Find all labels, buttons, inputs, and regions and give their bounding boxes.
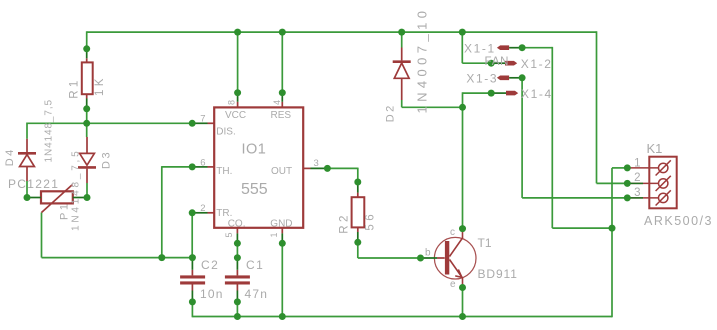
connector K1 terminal 3 [659,193,668,202]
resistor R1 bottom pin [86,94,88,98]
junction dot TH pin [189,163,196,170]
junction dot emitter-ground rail [459,313,466,320]
piezo P1 wiper diagonal [42,185,73,213]
transistor T1 emitter arrow [455,270,462,278]
wire: DIS row horizontal (D4 top to IO1 pin 7) [27,122,192,124]
wire: C1 bottom to ground rail [236,302,238,317]
wire: rail down to IO1 VCC pin [237,32,239,93]
wire: corner down to R2 top [357,168,359,182]
junction dot DIS row / R1 / D3 [83,120,90,127]
connector K1 pin 2 lead [627,182,658,184]
IO1 pin 4 RES [281,102,283,108]
junction dot C1 top [234,254,241,261]
svg-text:D4: D4 [4,147,16,166]
junction dot C2 top [189,254,196,261]
wire: horizontal to T1 base [358,257,421,259]
junction dot X1-3 pin [519,74,526,81]
junction dot C2 bottom [189,298,196,305]
svg-text:TR.: TR. [216,208,232,219]
svg-text:c: c [450,227,455,238]
junction dot C1-ground rail [234,313,241,320]
junction dot piezo right [84,194,91,201]
transistor T1 base bar [445,241,449,275]
junction dot R1 top [83,45,90,52]
junction dot X1-4 pin [488,90,495,97]
wire: TH column down to C2 row [161,166,163,258]
wire: junction up to K1 pin 1 row [611,168,613,228]
svg-text:1N4007_10: 1N4007_10 [415,7,430,114]
svg-text:e: e [450,279,456,290]
junction dot T1 emitter [459,284,466,291]
svg-text:TH.: TH. [216,166,232,177]
wire: DIS row corner down to D4 top [26,123,28,139]
wire: ground bottom rail [192,316,612,318]
diode D3 cathode bar [78,166,96,169]
wire: rail corner down to R1 top [86,31,88,49]
wire: ground rail right corner up to junction [611,228,613,317]
svg-text:X1-2: X1-2 [521,57,553,71]
junction dot K1 pin 3 [624,194,631,201]
capacitor C2 bottom plate [180,281,205,284]
resistor R1 body [82,62,93,94]
junction dot rail-D2 [398,29,405,36]
svg-text:T1: T1 [478,236,492,250]
junction dot R2 top [354,179,361,186]
IO1 pin 3 OUT [303,167,310,169]
svg-text:IO1: IO1 [242,141,267,157]
wire: OUT pin to R2 corner [327,167,357,169]
connector K1 pin 3 lead [627,197,658,199]
diode D4 bottom pin [26,167,28,182]
wire: CO pin down to C1 top [236,243,238,257]
op-amp timer IC IO1 body [214,107,303,227]
junction dot GND pin [279,240,286,247]
junction dot D2 / X1-4 / collector node [459,104,466,111]
diode D2 triangle [394,63,409,78]
junction dot VCC pin [234,89,241,96]
wire: T1 emitter down to ground rail [462,288,464,317]
junction dot OUT pin [324,165,331,172]
diode D2 cathode bar [393,60,411,63]
wire: X1-3 row to K1 pin 3 [522,197,627,199]
piezo / trimmer P1 body [41,191,73,203]
svg-text:2: 2 [634,172,640,184]
diode D3 bottom pin [86,169,88,183]
junction dot K1 pin 2 [624,180,631,187]
junction dot T1 base [417,255,424,262]
svg-text:K1: K1 [647,141,663,156]
svg-text:C1: C1 [246,258,264,272]
IO1 pin 2 TR [208,212,215,214]
connector pin X1-2 [491,62,505,64]
svg-text:8: 8 [227,100,237,105]
wire: R1 bottom to DIS row junction [86,109,88,124]
svg-text:R1: R1 [69,77,81,99]
junction dot piezo left [24,194,31,201]
svg-text:10n: 10n [200,287,224,301]
svg-text:P1: P1 [58,202,70,220]
svg-text:1N4148_7,5: 1N4148_7,5 [44,99,55,163]
diode D4 top pin [26,139,28,152]
svg-text:OUT: OUT [271,166,292,177]
junction dot rail-X1 [459,29,466,36]
wire: rail right end down to K1 pin 2 row [596,31,598,183]
svg-text:FAN: FAN [485,56,510,68]
IO1 pin 7 DIS [208,122,215,124]
junction dot TR pin [189,209,196,216]
wire: junction down to T1 collector [462,107,464,228]
capacitor C2 top plate [180,275,205,278]
junction dot T1 collector [459,225,466,232]
junction dot CO pin [234,240,241,247]
transistor T1 circle [434,237,476,279]
svg-text:1: 1 [269,232,279,237]
connector K1 pin 1 lead [627,167,658,169]
svg-text:47n: 47n [245,287,269,301]
svg-text:3: 3 [634,187,640,199]
wire: wiper row horizontal to C2 top [42,257,193,259]
wire: piezo wiper down [41,213,43,258]
svg-text:VCC: VCC [225,110,246,121]
wire: D4 bottom to piezo left node [26,181,28,198]
wire: gnd link row to junction [552,227,612,229]
svg-text:1: 1 [634,158,640,170]
svg-text:6: 6 [200,157,205,168]
capacitor C1 bottom plate [225,281,250,284]
diode D4 triangle [20,155,35,167]
diode D2 bottom pin [401,78,403,100]
diode D3 top pin [86,137,88,153]
connector K1 terminal 1 [659,163,668,172]
svg-text:5: 5 [224,232,234,237]
svg-text:X1-1: X1-1 [464,42,496,56]
junction dot TH column / wiper row [158,254,165,261]
svg-text:RES: RES [271,110,292,121]
svg-text:b: b [425,248,431,259]
wire: X1-3 column down [521,78,523,198]
svg-text:CO.: CO. [228,219,246,230]
junction dot X1-2 pin [488,60,495,67]
diode D2 top pin [401,48,403,61]
diode D3 triangle [80,153,95,165]
connector pin X1-1 [509,47,522,49]
svg-text:X1-3: X1-3 [466,72,498,86]
wire: +V top rail [87,31,597,33]
svg-text:1N4148_7,5: 1N4148_7,5 [71,149,82,232]
transistor T1 base pin [437,257,445,259]
svg-text:2: 2 [200,203,205,214]
wire: horizontal to K1 pin 2 [597,182,628,184]
wire: X1-4 row horizontal [463,92,492,94]
wire: X1-1 to right corner [522,47,552,49]
svg-text:4: 4 [272,100,282,105]
connector K1 body [649,157,676,209]
resistor R2 top pin [357,193,359,198]
IO1 pin 8 VCC [237,102,239,108]
capacitor C1 bottom pin [236,285,238,291]
wire: IO1 GND pin down to ground rail [281,243,283,316]
wire: X1-1 column down to gnd link row [551,47,553,228]
junction dot rail-VCC [234,29,241,36]
wire: rail down to IO1 RES pin [281,32,283,93]
junction dot R1 bottom [83,105,90,112]
svg-text:DIS.: DIS. [216,127,235,138]
resistor R1 top pin [86,58,88,62]
svg-text:3: 3 [314,158,319,169]
capacitor C1 top pin [236,270,238,276]
piezo P1 right pin [73,197,87,199]
wire: TH pin left horizontal [162,166,192,168]
svg-text:R2: R2 [338,212,350,234]
wire: R2 bottom down [357,242,359,258]
junction dot X1-1 pin [519,44,526,51]
svg-text:BD911: BD911 [478,267,518,281]
piezo P1 left pin [27,197,41,199]
transistor T1 emitter lead [450,260,463,288]
junction dot gnd link row [609,225,616,232]
capacitor C2 bottom pin [191,285,193,291]
svg-text:GND: GND [270,219,292,230]
svg-text:7: 7 [200,114,205,125]
transistor T1 collector lead [450,229,463,257]
wire: rail down to X1-2 row [461,32,463,63]
capacitor C2 top pin [191,270,193,276]
connector pin X1-4 [491,92,506,94]
junction dot GND-ground rail [279,313,286,320]
wire: D2 anode to collector-node junction [402,106,463,108]
capacitor C1 top plate [225,275,250,278]
wire: TR pin down to C2 top [191,213,193,258]
connector pin X1-3 [509,77,522,79]
IO1 pin 1 GND [281,228,283,234]
svg-text:ARK500/3: ARK500/3 [644,214,713,228]
wire: DIS row junction down to D3 top [86,123,88,137]
wire: X1-4 corner down to junction [462,92,464,107]
junction dot DIS pin [189,120,196,127]
svg-text:PC1221: PC1221 [8,177,59,191]
resistor R2 body [352,197,365,227]
svg-text:D2: D2 [385,103,397,122]
wire: C2 bottom down to ground rail [191,302,193,317]
svg-text:X1-4: X1-4 [521,87,553,101]
connector K1 terminal 2 [659,179,668,188]
svg-text:1K: 1K [94,75,106,96]
junction dot K1 pin 1 [624,164,631,171]
wire: D2 anode down [401,100,403,107]
svg-text:C2: C2 [201,258,219,272]
IO1 pin 5 CO [236,228,238,234]
wire: K1 pin 1 horizontal [612,167,627,169]
resistor R2 bottom pin [357,227,359,232]
junction dot C1 bottom [234,298,241,305]
svg-text:56: 56 [365,211,377,231]
wire: rail down to D2 cathode [401,32,403,47]
wire: horizontal to X1-2 pin [462,62,491,64]
wire: D3 bottom to piezo right node [86,183,88,198]
junction dot R2 bottom [354,239,361,246]
diode D4 cathode bar [18,152,36,155]
IO1 pin 6 TH [208,166,215,168]
svg-text:555: 555 [241,181,268,198]
junction dot rail-RES [279,29,286,36]
svg-text:D3: D3 [100,150,112,169]
junction dot RES pin [279,89,286,96]
